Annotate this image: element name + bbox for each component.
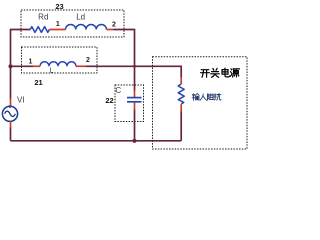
- wire: bottom horizontal rail: [11, 140, 182, 142]
- svg-text:1: 1: [56, 21, 60, 28]
- svg-text:Rd: Rd: [38, 12, 48, 21]
- svg-text:Ld: Ld: [76, 13, 85, 22]
- wire: left vertical from top corner down to VI source: [10, 29, 12, 99]
- wire: left vertical below source to bottom corner: [10, 128, 12, 141]
- wire stub below impedance: [180, 104, 182, 111]
- svg-text:23: 23: [55, 2, 63, 11]
- source VI top arrow notch: [8, 106, 12, 109]
- source VI sine wave: [5, 111, 16, 116]
- source VI circle: [2, 106, 17, 121]
- svg-text:2: 2: [86, 57, 90, 64]
- box 22 capacitor dashed rectangle: [115, 85, 144, 122]
- wire: drop from middle rail to input impedance: [180, 66, 182, 77]
- svg-text:1: 1: [29, 59, 33, 66]
- svg-text:22: 22: [105, 96, 113, 105]
- capacitor C top plate: [127, 97, 142, 99]
- inductor Ld coil: [66, 24, 107, 29]
- wire stub after L: [76, 65, 86, 67]
- wire stub above capacitor: [134, 91, 136, 98]
- wire: orange stub above VI source: [10, 99, 12, 107]
- junction at capacitor branch: [133, 65, 136, 68]
- svg-text:21: 21: [34, 78, 42, 87]
- svg-text:2: 2: [112, 21, 116, 28]
- char 关: [211, 68, 220, 77]
- wire stub after Ld (node 2): [107, 29, 114, 31]
- wire: right vertical down to capacitor: [134, 29, 136, 91]
- char 阻: [207, 94, 213, 101]
- wire stub before L: [33, 65, 40, 67]
- wire: impedance down to bottom rail: [180, 112, 182, 141]
- char 抗: [214, 93, 221, 100]
- wire from box 23 to right corner: [114, 29, 135, 31]
- char 开: [201, 70, 210, 78]
- wire: orange stub below VI source: [10, 121, 12, 127]
- inductor L coil: [40, 62, 76, 67]
- wire: capacitor branch down to bottom rail: [134, 110, 136, 141]
- label 开关电源 (switching power supply), drawn strokes: [201, 68, 240, 77]
- svg-text:L: L: [50, 68, 54, 75]
- wire: top horizontal from source top corner to Rd: [11, 29, 31, 31]
- box 21 dashed rectangle: [22, 47, 98, 73]
- char 入: [200, 94, 207, 100]
- char 输: [192, 93, 199, 100]
- wire: middle horizontal from left rail into box 21: [11, 65, 34, 67]
- wire stub below capacitor: [134, 103, 136, 110]
- svg-text:C: C: [115, 86, 121, 95]
- char 电: [222, 68, 229, 77]
- char 源: [231, 69, 240, 77]
- resistor Rd zigzag: [30, 27, 49, 33]
- capacitor C bottom plate: [127, 101, 142, 103]
- junction at bottom rail: [132, 139, 136, 143]
- box switching power supply dashed rectangle: [153, 57, 248, 149]
- wire stub between Rd and Ld (node 1): [49, 29, 65, 31]
- box 23 dashed rectangle: [21, 10, 124, 37]
- junction at left rail: [8, 64, 12, 68]
- wire stub above impedance: [180, 77, 182, 84]
- svg-text:VI: VI: [17, 96, 25, 105]
- label 输入阻抗 (input impedance), drawn strokes: [192, 93, 221, 100]
- resistor input impedance zigzag: [178, 84, 184, 104]
- wire: middle horizontal to impedance branch: [86, 65, 181, 67]
